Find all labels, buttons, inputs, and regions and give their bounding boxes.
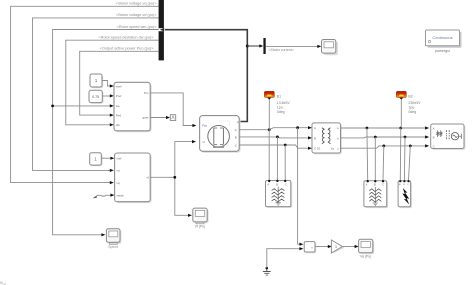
svg-text:1pu: 1pu <box>408 106 414 110</box>
svg-text:gate: gate <box>143 116 149 120</box>
svg-text:230e3V: 230e3V <box>408 101 421 105</box>
wire transformer b to source <box>341 136 426 139</box>
wire branch to stator-current selector <box>247 45 261 47</box>
wire transformer a to source <box>341 127 426 129</box>
load1 three-phase RLC load <box>266 180 293 208</box>
bus B2 measurement <box>396 91 421 128</box>
svg-text:Speed: Speed <box>108 245 118 249</box>
ground G1 <box>263 269 271 276</box>
op HTG governor block U1 <box>114 82 152 132</box>
svg-text:A: A <box>433 126 435 130</box>
svg-text:powergui: powergui <box>435 49 451 53</box>
svg-text:A: A <box>314 126 316 130</box>
fault breaker block <box>398 180 412 208</box>
terminator T1 <box>170 115 175 121</box>
wire ground to measurement <box>267 249 300 268</box>
svg-text:vstab: vstab <box>116 193 124 197</box>
svg-text:Continuous: Continuous <box>432 35 452 40</box>
node vf junction <box>173 176 176 179</box>
node B load1 junction <box>276 136 279 139</box>
wire load1 A drop <box>268 130 270 181</box>
svg-text:C: C <box>285 182 287 186</box>
scope Speed <box>106 229 121 249</box>
svg-text:<Stator current>: <Stator current> <box>269 48 294 52</box>
node c fault junction <box>409 145 412 148</box>
wire fault C drop <box>409 146 411 180</box>
machine SM synchronous machine <box>200 116 241 153</box>
wire gain to scope Va <box>342 246 355 248</box>
wire const 0.75 to HTG Pref <box>102 95 110 97</box>
wire phase A to measurement drop <box>298 128 301 245</box>
wire transformer c to source <box>341 146 426 148</box>
node C load1 junction <box>284 144 287 147</box>
wire BS1 out4 dw to HTG <box>66 40 159 125</box>
constant block 1 (vref) <box>90 153 103 167</box>
svg-text:we: we <box>116 104 120 108</box>
scope Is <box>322 40 339 56</box>
node m-bus junction <box>246 45 249 48</box>
wire VM1 to gain <box>315 246 329 248</box>
voltage measurement VM1 <box>304 242 316 254</box>
op excitation system block U2 <box>115 153 152 203</box>
svg-text:<Stator voltage vq (pu)>: <Stator voltage vq (pu)> <box>116 2 158 6</box>
load2 three-phase RLC load <box>364 180 388 208</box>
svg-text:13.8e3V: 13.8e3V <box>277 101 291 105</box>
svg-text:wref: wref <box>116 84 122 88</box>
constant block 0.75 (Pref) <box>89 90 104 104</box>
scope Va <box>359 239 375 258</box>
svg-text:B: B <box>235 135 237 139</box>
wire load2 A drop <box>366 128 369 180</box>
svg-text:Pe0: Pe0 <box>116 113 122 117</box>
wire BS1 out2 vd to excitation <box>33 18 159 171</box>
scope Vf <box>193 208 209 228</box>
svg-text:Pm: Pm <box>202 124 207 128</box>
svg-text:0deg: 0deg <box>277 110 285 114</box>
svg-text:A: A <box>366 183 368 187</box>
svg-text:1: 1 <box>335 245 337 249</box>
wire load2 B drop <box>374 137 376 180</box>
wire fault B drop <box>403 137 406 180</box>
svg-text:C: C <box>433 144 435 148</box>
wire load2 C drop <box>382 146 385 180</box>
wire fault A drop <box>399 128 402 180</box>
svg-text:vf: vf <box>146 176 149 180</box>
svg-text:B: B <box>433 135 435 139</box>
svg-text:vq: vq <box>116 181 120 185</box>
wire m bus from machine to BS1 <box>165 30 247 122</box>
svg-text:<Rotor speed deviation dw (pu: <Rotor speed deviation dw (pu)> <box>98 36 154 40</box>
wire load1 B drop <box>276 137 278 180</box>
svg-text:B2: B2 <box>408 95 412 99</box>
svg-text:<Rotor speed wm (pu)>: <Rotor speed wm (pu)> <box>117 25 158 29</box>
svg-text:B: B <box>374 183 376 187</box>
svg-text:1pu: 1pu <box>277 106 283 110</box>
ground vstab <box>93 195 98 198</box>
node a fault junction <box>399 127 402 130</box>
corner scribble <box>0 282 6 285</box>
svg-text:vf: vf <box>202 140 205 144</box>
node A load1 junction <box>268 128 271 131</box>
node a load2 junction <box>366 127 369 130</box>
svg-text:C: C <box>235 143 237 147</box>
svg-text:<Stator voltage vd (pu)>: <Stator voltage vd (pu)> <box>116 13 158 17</box>
svg-text:Pref: Pref <box>116 94 122 98</box>
powergui block <box>426 30 462 53</box>
svg-text:B: B <box>276 182 278 186</box>
wire const1 to HTG wref <box>102 81 111 87</box>
wire machine A to transformer <box>239 128 309 130</box>
wire machine C to transformer <box>239 145 309 148</box>
wire const1 to excitation vref <box>101 157 111 159</box>
node b load2 junction <box>374 136 377 139</box>
wire HTG gate to terminator <box>150 117 167 119</box>
transformer TR1 <box>312 123 342 155</box>
three-phase source block <box>431 124 466 150</box>
svg-text:Vf (Pu): Vf (Pu) <box>195 225 206 229</box>
wire HTG Pm to machine <box>150 93 193 126</box>
svg-text:0.75: 0.75 <box>92 95 99 99</box>
bus selector BS2 <box>263 38 265 54</box>
wire machine B to transformer <box>239 137 309 138</box>
svg-text:<Output active power Peo (pu): <Output active power Peo (pu)> <box>100 47 155 51</box>
svg-text:A: A <box>235 128 237 132</box>
svg-text:C: C <box>382 183 384 187</box>
svg-text:0deg: 0deg <box>408 110 416 114</box>
wire BS1 out3 wm to HTG and speed scope <box>53 30 159 235</box>
svg-text:B: B <box>314 136 316 140</box>
node A measure junction <box>296 126 299 129</box>
svg-text:vref: vref <box>116 157 121 161</box>
bus B1 measurement <box>264 91 290 129</box>
wire BS2 to scope Is <box>266 45 320 47</box>
constant block 1 (wref) <box>90 74 103 88</box>
svg-text:B1: B1 <box>277 95 281 99</box>
node b fault junction <box>404 136 407 139</box>
svg-text:Pm: Pm <box>144 91 149 95</box>
wire BS1 out5 Peo to HTG <box>80 51 159 115</box>
wire load1 C drop <box>284 145 286 180</box>
gain K1 <box>331 240 344 253</box>
svg-text:D1: D1 <box>317 146 321 150</box>
node wm junction <box>51 105 54 108</box>
svg-text:A: A <box>267 182 269 186</box>
svg-text:C: C <box>314 147 316 151</box>
svg-text:Yg: Yg <box>331 146 335 150</box>
svg-text:Va (Pu): Va (Pu) <box>360 254 371 258</box>
bus selector BS1 <box>159 0 164 60</box>
wire BS1 out1 vq to excitation <box>11 6 159 182</box>
svg-text:vd: vd <box>116 169 120 173</box>
wire excitation vf to machine and scope <box>150 142 192 178</box>
node c load2 junction <box>382 145 385 148</box>
